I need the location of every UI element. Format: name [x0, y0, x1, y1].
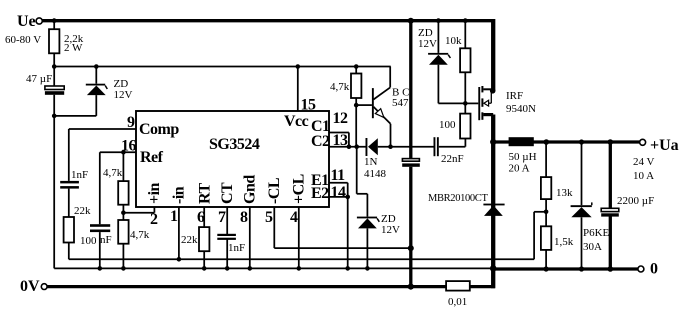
svg-text:2: 2: [150, 211, 158, 228]
svg-text:-in: -in: [171, 186, 188, 204]
svg-text:9: 9: [127, 114, 135, 131]
svg-text:47 µF: 47 µF: [26, 73, 52, 85]
svg-text:8: 8: [240, 209, 248, 226]
svg-text:P6KE: P6KE: [583, 227, 610, 239]
svg-text:2 W: 2 W: [64, 42, 83, 54]
svg-text:100: 100: [80, 235, 97, 247]
svg-text:60-80 V: 60-80 V: [5, 34, 41, 46]
svg-text:1,5k: 1,5k: [554, 236, 574, 248]
svg-text:7: 7: [218, 209, 226, 226]
svg-text:16: 16: [121, 138, 137, 155]
svg-text:+Ua: +Ua: [650, 137, 679, 154]
svg-text:Gnd: Gnd: [242, 175, 259, 204]
svg-text:12V: 12V: [114, 89, 133, 101]
svg-text:E2: E2: [311, 185, 329, 202]
svg-text:22k: 22k: [74, 205, 91, 217]
svg-text:Vcc: Vcc: [284, 113, 309, 130]
svg-text:13: 13: [333, 132, 349, 149]
svg-text:5: 5: [265, 209, 273, 226]
svg-text:50 µH: 50 µH: [509, 151, 537, 163]
svg-text:IRF: IRF: [506, 90, 523, 102]
svg-text:-CL: -CL: [266, 178, 283, 204]
svg-text:CT: CT: [219, 182, 236, 204]
svg-text:+CL: +CL: [291, 174, 308, 204]
svg-text:RT: RT: [197, 183, 214, 204]
svg-text:22nF: 22nF: [441, 153, 464, 165]
svg-text:C2: C2: [311, 133, 330, 150]
svg-text:0: 0: [650, 261, 658, 278]
svg-text:20 A: 20 A: [509, 163, 530, 175]
svg-text:9540N: 9540N: [506, 103, 536, 115]
svg-text:10k: 10k: [445, 35, 462, 47]
svg-text:4,7k: 4,7k: [330, 81, 350, 93]
svg-text:4,7k: 4,7k: [103, 167, 123, 179]
svg-text:100: 100: [439, 119, 456, 131]
svg-text:Comp: Comp: [139, 121, 179, 138]
svg-text:13k: 13k: [556, 187, 573, 199]
svg-text:4148: 4148: [364, 168, 387, 180]
svg-text:+in: +in: [146, 182, 163, 204]
svg-text:1nF: 1nF: [71, 169, 88, 181]
svg-text:0V: 0V: [20, 278, 40, 295]
svg-text:nF: nF: [100, 234, 112, 246]
svg-text:1: 1: [170, 208, 178, 225]
svg-text:10 A: 10 A: [633, 170, 654, 182]
svg-text:4: 4: [290, 209, 298, 226]
svg-text:4,7k: 4,7k: [130, 229, 150, 241]
svg-text:12V: 12V: [381, 224, 400, 236]
svg-text:30A: 30A: [583, 241, 602, 253]
svg-text:6: 6: [197, 209, 205, 226]
svg-text:2200 µF: 2200 µF: [617, 195, 654, 207]
svg-text:12: 12: [333, 110, 349, 127]
svg-text:MBR20100CT: MBR20100CT: [428, 193, 488, 204]
svg-text:1nF: 1nF: [228, 242, 245, 254]
svg-text:22k: 22k: [181, 234, 198, 246]
svg-text:11: 11: [331, 167, 346, 184]
svg-text:1N: 1N: [364, 156, 378, 168]
svg-text:14: 14: [331, 184, 347, 201]
svg-text:Ref: Ref: [140, 149, 164, 166]
svg-text:24 V: 24 V: [633, 156, 655, 168]
svg-text:SG3524: SG3524: [209, 136, 260, 153]
svg-text:15: 15: [301, 97, 317, 114]
svg-text:12V: 12V: [418, 38, 437, 50]
svg-text:0,01: 0,01: [448, 296, 467, 308]
svg-text:Ue: Ue: [17, 13, 36, 30]
svg-text:547: 547: [392, 97, 409, 109]
